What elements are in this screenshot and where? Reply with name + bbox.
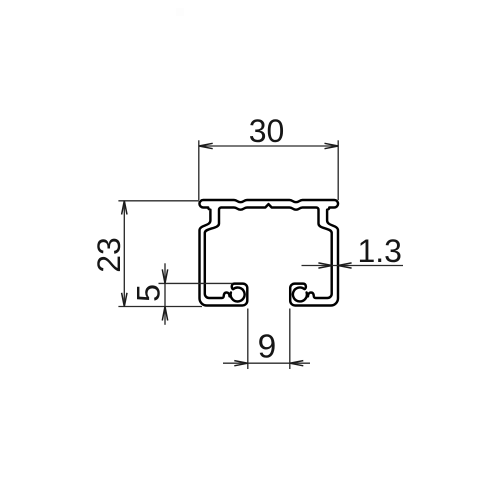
dimension 9: text	[258, 329, 277, 366]
dimension 1.3: leader line	[302, 265, 404, 267]
dimension 1.3: arrowheads	[318, 263, 351, 268]
svg-text:23: 23	[91, 237, 127, 273]
dimension 30: arrowheads	[199, 143, 338, 148]
dimension 5: extension line	[159, 282, 233, 284]
dimension 9: dim line	[223, 362, 310, 364]
dimension 9: extension line right	[289, 309, 291, 370]
dimension 30: extension line right	[337, 140, 339, 200]
dimension 23: extension line bottom	[118, 306, 202, 308]
dimension 5: dim line	[164, 263, 166, 325]
dimension 23: dim line	[123, 201, 125, 307]
dimension 5: text (rotated)	[131, 284, 167, 302]
dimension 9: arrowheads	[234, 361, 303, 366]
dimension 23: arrowheads	[122, 201, 127, 307]
dimension 30: extension line left	[198, 140, 200, 200]
dimension 30: dim line	[199, 145, 338, 147]
dimension 9: extension line left	[247, 309, 249, 370]
dimension 23: text (rotated)	[91, 237, 127, 273]
faint square artifact top	[176, 8, 184, 16]
dimension 30: text	[249, 113, 285, 149]
svg-text:9: 9	[258, 329, 277, 366]
dimension 23: extension line top	[118, 200, 199, 202]
rail profile outline (sheet cross-section, closed contour)	[199, 200, 338, 306]
svg-text:1.3: 1.3	[357, 233, 401, 269]
svg-text:30: 30	[249, 113, 285, 149]
dimension 1.3: text	[357, 233, 401, 269]
dimension 5: arrowheads	[162, 269, 167, 320]
svg-text:5: 5	[131, 284, 167, 302]
